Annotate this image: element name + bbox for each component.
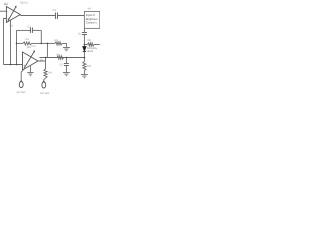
svg-text:*VL: *VL (9, 25, 14, 28)
svg-text:-: - (7, 10, 8, 14)
svg-text:A1: A1 (4, 2, 8, 6)
svg-text:C4: C4 (53, 9, 57, 12)
svg-text:C5: C5 (60, 64, 64, 67)
svg-text:R2: R2 (26, 38, 30, 41)
svg-text:diode: diode (87, 50, 94, 53)
svg-text:+: + (23, 64, 25, 68)
svg-text:VR: VR (88, 7, 92, 10)
svg-text:IC2: IC2 (32, 45, 37, 48)
svg-text:Control c: Control c (86, 20, 98, 24)
svg-text:327 lam: 327 lam (17, 91, 26, 94)
svg-text:2u: 2u (78, 33, 81, 36)
svg-text:-: - (24, 55, 25, 59)
svg-text:R5: R5 (55, 39, 59, 42)
svg-text:+: + (7, 17, 9, 21)
svg-text:327 lam: 327 lam (40, 92, 49, 95)
svg-text:R6: R6 (57, 54, 61, 57)
svg-text:R8: R8 (88, 39, 92, 42)
svg-text:500: 500 (87, 65, 92, 68)
svg-text:GB R1: GB R1 (20, 2, 28, 5)
svg-text:C2: C2 (28, 25, 32, 28)
svg-text:R9: R9 (49, 72, 53, 75)
